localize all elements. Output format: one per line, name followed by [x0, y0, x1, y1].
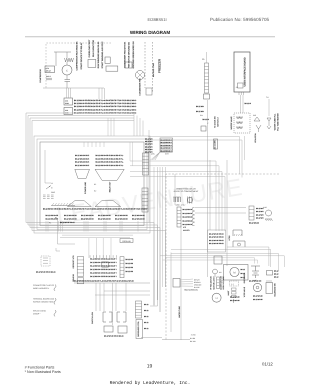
svg-text:DISPENSER: DISPENSER — [243, 272, 246, 283]
svg-text:AUGER MOTOR: AUGER MOTOR — [219, 276, 222, 290]
svg-text:Rendered by LeadVenture, Inc.: Rendered by LeadVenture, Inc. — [110, 380, 191, 386]
svg-text:TWO SCREW CN: TWO SCREW CN — [184, 288, 198, 291]
svg-text:SCREW CONNECTION *: SCREW CONNECTION * — [33, 301, 55, 304]
svg-text:SW: SW — [200, 114, 203, 117]
svg-text:19: 19 — [147, 364, 153, 370]
svg-text:SW: SW — [253, 114, 256, 117]
svg-text:01/12: 01/12 — [262, 361, 273, 366]
svg-text:: (*) RD: : (*) RD — [190, 334, 196, 337]
svg-text:FZ DOOR SW: FZ DOOR SW — [214, 116, 217, 128]
svg-text:WATER TUBE FILL: WATER TUBE FILL — [274, 114, 277, 131]
svg-text:CONDENSER FAN: CONDENSER FAN — [139, 78, 142, 96]
svg-text:J15 CONN: J15 CONN — [214, 140, 217, 150]
svg-text:SWITCH LT: SWITCH LT — [217, 116, 220, 126]
svg-text:FF FAN MOTOR: FF FAN MOTOR — [210, 276, 213, 290]
svg-text:TERMINAL BOARD AND: TERMINAL BOARD AND — [33, 298, 55, 301]
svg-text:FAN MOTOR GROUND GN: FAN MOTOR GROUND GN — [128, 42, 131, 68]
svg-text:FREEZER: FREEZER — [158, 58, 162, 73]
svg-text:BK-12 WH-30 OR-53 BU-24 RD-35: BK-12 WH-30 OR-53 BU-24 RD-35 YL-46 GN-6… — [74, 108, 136, 111]
svg-text:DISPENSER CTRL: DISPENSER CTRL — [137, 321, 140, 337]
svg-text:GROUND: GROUND — [122, 240, 131, 243]
svg-text:K2: K2 — [94, 190, 96, 193]
svg-text:P9: P9 — [202, 58, 204, 61]
svg-text:HTRS: HTRS — [228, 235, 231, 241]
svg-text:RUN WINDING MAIN BK-55: RUN WINDING MAIN BK-55 — [97, 41, 100, 68]
svg-text:SPLICE CONN: SPLICE CONN — [33, 310, 46, 313]
svg-text:M: M — [233, 272, 235, 275]
svg-text:x: x — [49, 185, 50, 188]
svg-text:BU-BK: BU-BK — [190, 337, 196, 340]
svg-text:SWITCH LOW: SWITCH LOW — [91, 312, 94, 324]
svg-text:J2: J2 — [236, 86, 238, 89]
svg-text:GND: GND — [51, 191, 56, 194]
svg-text:P1: P1 — [49, 222, 51, 225]
svg-text:# Functional Parts: # Functional Parts — [25, 365, 55, 369]
svg-text:& LED LTG COMPARTMENT: & LED LTG COMPARTMENT — [174, 190, 200, 193]
svg-text:C: C — [66, 69, 68, 72]
svg-text:MACHINE COMP: MACHINE COMP — [152, 62, 155, 77]
svg-text:COMPRESSOR: COMPRESSOR — [39, 69, 42, 83]
svg-text:DEFROST HTR: DEFROST HTR — [72, 255, 75, 268]
svg-text:L1: L1 — [51, 182, 53, 185]
svg-text:COMPRESSOR RUN WDG BK: COMPRESSOR RUN WDG BK — [76, 41, 79, 71]
svg-text:BK-WH: BK-WH — [190, 340, 196, 343]
svg-text:SOLENOID SW: SOLENOID SW — [274, 283, 277, 297]
svg-text:START WINDING AUX RD-2: START WINDING AUX RD-2 — [101, 41, 104, 69]
svg-text:MAKER: MAKER — [183, 229, 190, 232]
svg-text:MOTOR LOW V: MOTOR LOW V — [212, 276, 215, 290]
svg-text:FILL TUBE HEATER: FILL TUBE HEATER — [277, 113, 280, 131]
svg-text:BK-12 WH-30 OR-53 BU-24 RD-35: BK-12 WH-30 OR-53 BU-24 RD-35 YL-46 GN-6… — [74, 105, 136, 108]
svg-text:K1: K1 — [94, 183, 96, 186]
svg-text:USER INTERFACE BOARD: USER INTERFACE BOARD — [244, 57, 247, 86]
svg-text:* Non-Illustrated Parts: * Non-Illustrated Parts — [25, 370, 61, 374]
svg-text:POWER LINE: POWER LINE — [84, 181, 87, 194]
svg-text:CONNECTOR PLUG OF: CONNECTOR PLUG OF — [33, 284, 55, 287]
svg-text:H: H — [216, 297, 218, 300]
svg-text:EI28BS51I: EI28BS51I — [147, 17, 166, 22]
svg-text:RUN CAPACITOR: RUN CAPACITOR — [92, 39, 95, 57]
svg-text:F: F — [208, 122, 209, 125]
svg-text:WTR VALVE: WTR VALVE — [243, 286, 246, 297]
svg-text:START DEVICE PTC RELAY: START DEVICE PTC RELAY — [80, 42, 83, 70]
svg-text:FRESH FOOD DR AIR: FRESH FOOD DR AIR — [176, 188, 196, 191]
svg-text:OVERLOAD PROT: OVERLOAD PROT — [88, 39, 91, 58]
svg-text:WATER VALVE: WATER VALVE — [230, 116, 233, 130]
svg-text:HIGH VOLTAGE: HIGH VOLTAGE — [222, 276, 225, 290]
svg-text:INLET: INLET — [227, 291, 230, 296]
svg-text:GROUND GREEN WIRE GN: GROUND GREEN WIRE GN — [132, 41, 135, 68]
svg-text:P1: P1 — [55, 217, 57, 220]
svg-text:CRIMP *: CRIMP * — [33, 313, 41, 316]
svg-text:(~): (~) — [231, 283, 234, 286]
svg-text:RELAY OUT: RELAY OUT — [109, 181, 112, 192]
svg-text:WIRING DIAGRAM: WIRING DIAGRAM — [130, 30, 170, 35]
svg-text:ISOLATION: ISOLATION — [254, 133, 257, 143]
svg-text:WIRE HARNESS #: WIRE HARNESS # — [33, 287, 50, 290]
svg-text:WATER TUBE: WATER TUBE — [178, 305, 181, 317]
svg-text:Publication No: 5995605705: Publication No: 5995605705 — [210, 17, 270, 22]
svg-text:BK-12 WH-30 OR-53 BU-24 RD-35: BK-12 WH-30 OR-53 BU-24 RD-35 YL-46 GN-6… — [74, 102, 136, 105]
svg-text:BK-12 WH-30 OR-53 BU-24 RD-35: BK-12 WH-30 OR-53 BU-24 RD-35 YL-46 GN-6… — [74, 99, 136, 102]
